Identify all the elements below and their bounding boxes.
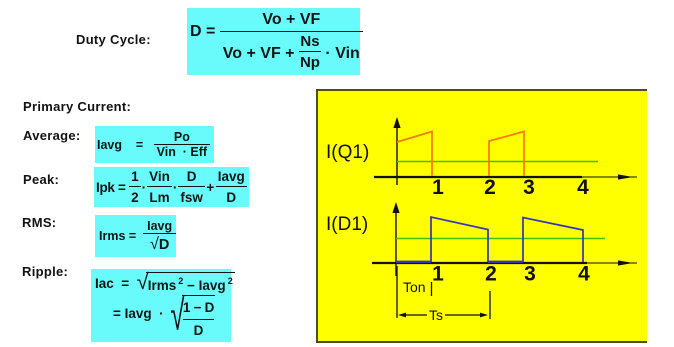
svg-text:2: 2 [485,263,497,286]
I(Q1) waveform pulse 2 [489,132,524,177]
label "Average:" [23,128,81,143]
I(D1) waveform zero segment 2 [488,261,523,263]
label I(Q1) [326,142,369,164]
svg-text:1: 1 [432,176,444,199]
I(D1) waveform zero segment 1 [396,261,431,263]
bottom chart x-axis [372,262,587,264]
I(Q1) waveform pulse 1 [397,132,432,177]
svg-text:Ton: Ton [403,279,426,295]
formula peak Ipk [94,167,249,207]
label "Ripple:" [22,264,68,279]
Ts left arrow [403,314,427,316]
I(D1) waveform pulse 1 [431,217,488,262]
bottom chart green average line [396,238,605,240]
top chart y-axis [396,127,398,185]
svg-text:3: 3 [523,176,535,199]
top chart y-axis arrowhead [393,117,400,128]
top chart x-axis [374,176,582,178]
svg-text:4: 4 [578,263,590,286]
label "Primary Current:" [23,99,131,114]
bottom chart y-axis arrowhead [392,202,399,213]
label "Peak:" [23,172,59,187]
top chart x-axis arrowhead [618,174,633,179]
bottom chart x-axis arrowhead [618,260,633,265]
Ts right boundary marker [489,291,491,319]
svg-text:3: 3 [524,263,536,286]
top chart green average line [397,161,598,163]
formula average Iavg = Po/(Vin Eff) [95,126,214,163]
label "RMS:" [22,215,56,230]
bottom chart y-axis [395,212,397,276]
Ton left boundary marker [396,266,398,318]
yellow chart panel [316,89,647,343]
Ts right arrow [445,314,482,316]
svg-text:Ts: Ts [429,307,443,323]
formula ripple Iac [91,269,231,342]
I(D1) waveform pulse 2 [523,218,583,263]
svg-text:2: 2 [484,176,496,199]
label "Duty Cycle:" [76,32,151,47]
formula rms Irms = Iavg/sqrt(D) [95,215,176,257]
formula duty cycle D = (Vo+VF)/(Vo+VF+(Ns/Np)Vin) [187,8,360,75]
Ton right tick [431,282,433,296]
svg-text:1: 1 [432,263,444,286]
label I(D1) [326,214,368,236]
svg-text:4: 4 [577,176,589,199]
